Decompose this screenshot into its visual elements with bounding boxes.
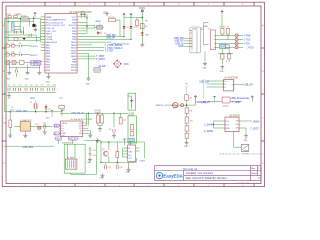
svg-text:1_SWIM: 1_SWIM: [204, 124, 213, 126]
svg-text:USB: USB: [192, 29, 197, 31]
svg-text:OSC_IN: OSC_IN: [69, 139, 77, 141]
svg-text:ST-Link v2: ST-Link v2: [183, 167, 198, 171]
svg-text:DM: DM: [55, 126, 58, 128]
svg-text:C7: C7: [41, 85, 43, 87]
svg-text:PB13: PB13: [71, 70, 77, 72]
svg-text:T_NRST: T_NRST: [96, 59, 106, 61]
svg-text:PB15: PB15: [71, 64, 77, 66]
svg-text:OSC: OSC: [124, 64, 129, 66]
svg-text:Date: 2019-03-07 Drawn By:: Date: 2019-03-07 Drawn By: MikroElec: [186, 177, 228, 180]
svg-text:R3 1k5: R3 1k5: [129, 115, 135, 117]
svg-text:OSC_IN: OSC_IN: [46, 28, 55, 30]
svg-text:GND: GND: [184, 146, 189, 148]
svg-text:PC13-TAMPER-RTC: PC13-TAMPER-RTC: [46, 19, 67, 22]
svg-text:Y1: Y1: [99, 24, 101, 26]
svg-text:GND: GND: [46, 82, 51, 84]
svg-text:F1: F1: [30, 102, 32, 104]
svg-text:GND: GND: [126, 172, 131, 174]
svg-text:D+: D+: [224, 81, 226, 83]
svg-text:C15: C15: [108, 167, 111, 169]
svg-text:PC14-OSC32_IN: PC14-OSC32_IN: [46, 22, 63, 24]
svg-text:easyeda.com: easyeda.com: [237, 183, 250, 185]
svg-text:VCC: VCC: [10, 109, 15, 111]
svg-text:J-TDO: J-TDO: [247, 47, 254, 49]
svg-text:VCC: VCC: [59, 97, 64, 99]
svg-text:EasyEDA: EasyEDA: [163, 174, 183, 179]
svg-text:USB_ID: USB_ID: [175, 43, 184, 45]
svg-text:USB_DP: USB_DP: [244, 84, 254, 86]
svg-text:VCC: VCC: [61, 110, 66, 112]
svg-text:PC15-OSC32_OUT: PC15-OSC32_OUT: [46, 25, 66, 27]
svg-text:C9: C9: [47, 85, 49, 87]
svg-text:C12: C12: [93, 155, 96, 157]
svg-text:USB_REN: USB_REN: [23, 147, 34, 149]
svg-text:USB_DM_IN: USB_DM_IN: [71, 112, 84, 114]
svg-text:GND: GND: [100, 178, 105, 180]
svg-text:1k5 pull-up on SWIM interface: 1k5 pull-up on SWIM interface: [220, 152, 264, 155]
svg-text:VCC: VCC: [7, 14, 12, 16]
svg-text:T_JRST: T_JRST: [250, 128, 259, 130]
svg-text:1k5: 1k5: [190, 120, 193, 122]
svg-text:C5: C5: [30, 85, 32, 87]
svg-text:OSC1: OSC1: [56, 139, 61, 141]
svg-text:T_NRST: T_NRST: [31, 61, 39, 63]
svg-text:GND: GND: [6, 78, 11, 80]
svg-text:D1: D1: [49, 109, 51, 111]
svg-text:BOOT1: BOOT1: [31, 55, 39, 57]
svg-text:Q1: Q1: [102, 149, 105, 151]
svg-text:PA10: PA10: [71, 55, 77, 58]
svg-text:C10: C10: [52, 85, 55, 87]
svg-text:SWD: SWD: [203, 26, 209, 28]
svg-text:PA15: PA15: [71, 41, 77, 44]
svg-text:T_JRST: T_JRST: [232, 102, 241, 104]
svg-text:VCC: VCC: [30, 98, 35, 100]
svg-text:jumper: jumper: [222, 105, 229, 107]
svg-text:NRST: NRST: [96, 21, 103, 23]
svg-text:SWDIO_OUT: SWDIO_OUT: [156, 105, 170, 107]
svg-text:PA12: PA12: [71, 49, 77, 52]
svg-text:C16: C16: [119, 167, 122, 169]
svg-text:GND: GND: [226, 128, 231, 130]
svg-text:J-TDI: J-TDI: [244, 43, 250, 45]
svg-text:USB_DM: USB_DM: [174, 38, 184, 40]
svg-text:T_JTCK_SWCLK: T_JTCK_SWCLK: [105, 48, 123, 50]
svg-text:BOOT0: BOOT0: [69, 25, 77, 27]
svg-text:VBUS: VBUS: [139, 8, 146, 10]
svg-text:T_SWIM: T_SWIM: [250, 121, 259, 123]
svg-text:USB_DP: USB_DP: [174, 41, 184, 43]
svg-text:GND: GND: [178, 46, 183, 48]
svg-text:R8: R8: [190, 111, 192, 113]
svg-text:D3: D3: [126, 27, 128, 29]
svg-text:C3: C3: [18, 85, 20, 87]
svg-text:USB_DM: USB_DM: [106, 35, 116, 37]
svg-text:VDDA: VDDA: [46, 38, 53, 41]
svg-text:NRST: NRST: [46, 34, 53, 36]
svg-text:PA11: PA11: [71, 52, 77, 55]
svg-text:VDD: VDD: [103, 12, 108, 15]
svg-text:GND: GND: [86, 83, 91, 85]
svg-text:VBAT: VBAT: [46, 16, 52, 19]
svg-text:o: o: [78, 139, 79, 141]
svg-text:4k7: 4k7: [189, 98, 192, 100]
svg-text:VCC: VCC: [35, 124, 40, 126]
svg-text:PA14: PA14: [71, 44, 77, 47]
svg-text:C1: C1: [8, 85, 10, 87]
svg-text:PA13: PA13: [71, 47, 77, 50]
svg-text:VCC: VCC: [72, 17, 77, 19]
svg-text:IO2: IO2: [226, 124, 229, 126]
svg-text:C4: C4: [25, 85, 27, 87]
svg-text:IO1: IO1: [226, 121, 229, 123]
svg-text:USB_DM: USB_DM: [199, 81, 209, 83]
svg-text:USB_DP: USB_DP: [106, 38, 116, 40]
svg-text:C6: C6: [35, 85, 37, 87]
svg-text:USB_PU: USB_PU: [201, 102, 211, 104]
svg-text:Company: Your Company: Company: Your Company: [186, 172, 214, 175]
svg-text:USB_Renumerate: USB_Renumerate: [112, 42, 131, 45]
svg-text:J-TMS: J-TMS: [244, 36, 251, 38]
svg-text:USB_Renumerate: USB_Renumerate: [231, 97, 250, 100]
svg-text:GND: GND: [25, 78, 30, 80]
svg-text:GND: GND: [243, 140, 248, 142]
svg-text:C11: C11: [93, 150, 96, 152]
svg-text:R5 10k: R5 10k: [108, 17, 114, 19]
svg-text:PB14: PB14: [71, 67, 77, 69]
svg-text:Sheet: Sheet: [251, 172, 257, 175]
svg-text:C6: C6: [19, 43, 21, 45]
svg-text:C2: C2: [13, 85, 15, 87]
svg-text:PA0-WKUP: PA0-WKUP: [46, 41, 58, 44]
svg-text:T_BOOT: T_BOOT: [31, 64, 39, 66]
svg-text:GND: GND: [128, 151, 133, 153]
svg-text:T_JTDO: T_JTDO: [105, 51, 114, 53]
svg-text:VOUT: VOUT: [140, 160, 147, 162]
svg-text:R4: R4: [3, 123, 5, 125]
svg-text:OSC_OUT: OSC_OUT: [46, 31, 57, 33]
svg-text:LED: LED: [145, 34, 150, 36]
svg-text:T_JRST: T_JRST: [96, 56, 105, 58]
svg-text:D4: D4: [133, 27, 135, 29]
svg-text:3V3: 3V3: [46, 117, 49, 119]
svg-text:2_SWIM: 2_SWIM: [204, 131, 213, 133]
svg-text:BOOT0: BOOT0: [31, 46, 39, 48]
svg-text:J-TCK: J-TCK: [244, 40, 251, 42]
svg-text:VSSA: VSSA: [46, 35, 52, 38]
